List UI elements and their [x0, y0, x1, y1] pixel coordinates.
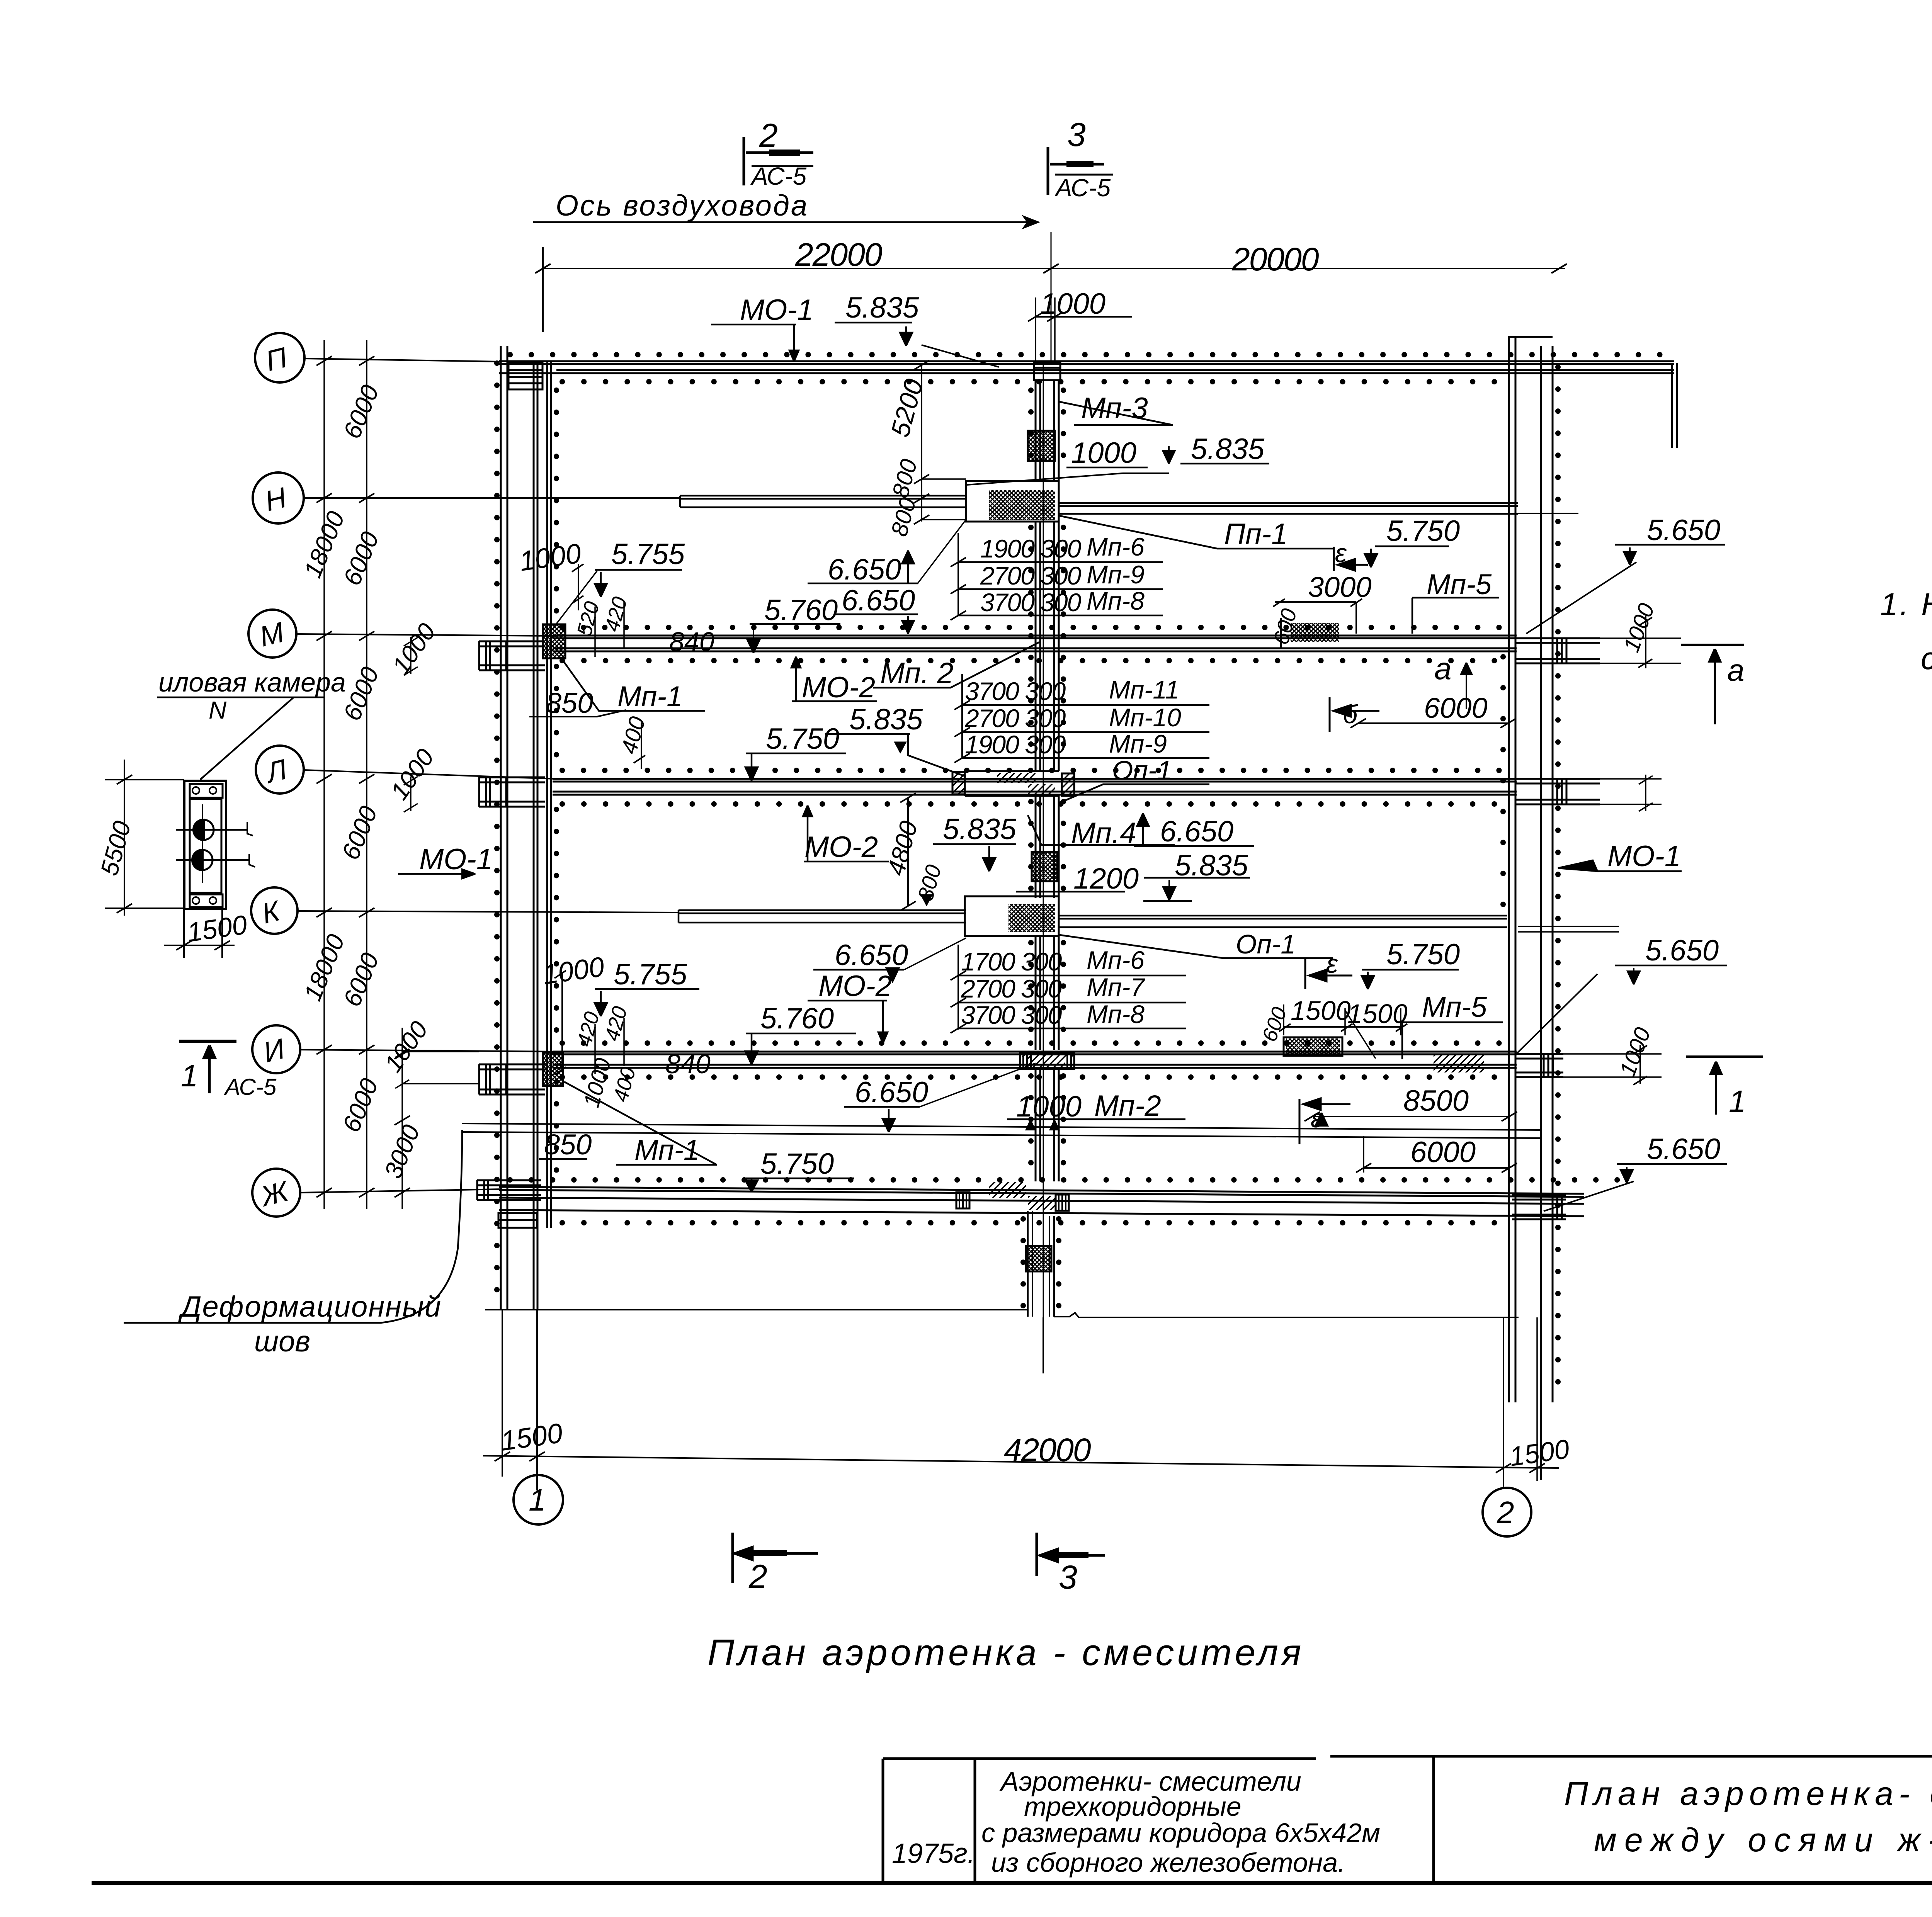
svg-text:с размерами коридора 6х5х42м: с размерами коридора 6х5х42м — [981, 1818, 1380, 1848]
svg-text:5.750: 5.750 — [1386, 938, 1460, 971]
svg-text:МО-2: МО-2 — [802, 671, 875, 704]
svg-text:Оп-1: Оп-1 — [1236, 929, 1296, 959]
svg-text:МО-2: МО-2 — [804, 831, 878, 863]
svg-text:1900 300: 1900 300 — [965, 730, 1066, 759]
svg-text:5.835: 5.835 — [1191, 433, 1265, 466]
svg-text:6.650: 6.650 — [855, 1076, 928, 1109]
svg-text:1500: 1500 — [1347, 999, 1408, 1029]
svg-text:850: 850 — [546, 687, 593, 719]
svg-text:6.650: 6.650 — [1160, 815, 1233, 848]
svg-text:ε: ε — [1335, 539, 1347, 568]
svg-text:1: 1 — [181, 1059, 198, 1093]
svg-text:Мп-11: Мп-11 — [1109, 675, 1179, 704]
svg-text:5.760: 5.760 — [760, 1002, 834, 1035]
svg-text:Мп-5: Мп-5 — [1422, 991, 1487, 1023]
svg-text:1975г.: 1975г. — [892, 1838, 975, 1869]
svg-text:3: 3 — [1059, 1559, 1077, 1596]
svg-text:1. Настоящий чертеж рассматри: 1. Настоящий чертеж рассматривать — [1880, 587, 1932, 622]
svg-text:1: 1 — [1729, 1084, 1746, 1118]
svg-text:850: 850 — [544, 1128, 592, 1161]
svg-text:Мп-6: Мп-6 — [1087, 532, 1145, 561]
svg-text:5.650: 5.650 — [1647, 1133, 1720, 1166]
svg-text:6.650: 6.650 — [828, 553, 901, 586]
svg-text:МО-1: МО-1 — [740, 294, 813, 326]
svg-text:1000: 1000 — [1071, 437, 1136, 469]
svg-text:840: 840 — [669, 627, 714, 657]
svg-text:Мп-9: Мп-9 — [1109, 729, 1167, 758]
svg-text:1500: 1500 — [1291, 996, 1351, 1026]
svg-text:Ось воздуховода: Ось воздуховода — [556, 189, 809, 222]
svg-text:а: а — [1434, 651, 1452, 686]
svg-text:5.835: 5.835 — [943, 813, 1017, 846]
svg-text:6000: 6000 — [1424, 692, 1488, 724]
svg-text:б: б — [1343, 700, 1359, 729]
svg-text:2: 2 — [1497, 1495, 1514, 1530]
svg-text:1000: 1000 — [1040, 287, 1105, 320]
svg-text:План аэротенка- смесителя: План аэротенка- смесителя — [1564, 1775, 1932, 1812]
svg-text:Деформационный: Деформационный — [178, 1290, 442, 1323]
svg-text:Мп-5: Мп-5 — [1427, 568, 1492, 600]
svg-text:5.755: 5.755 — [611, 538, 685, 571]
svg-text:Мп-8: Мп-8 — [1087, 586, 1145, 615]
svg-text:МО-1: МО-1 — [1607, 840, 1681, 873]
svg-text:Мп-2: Мп-2 — [1094, 1089, 1161, 1122]
svg-text:5.835: 5.835 — [845, 291, 919, 324]
svg-text:Мп-10: Мп-10 — [1109, 703, 1181, 732]
svg-text:6000: 6000 — [1410, 1136, 1476, 1169]
svg-text:5.650: 5.650 — [1647, 514, 1720, 547]
svg-text:5.755: 5.755 — [614, 958, 687, 991]
svg-text:из сборного железобетона.: из сборного железобетона. — [991, 1847, 1345, 1878]
svg-text:ε: ε — [1326, 949, 1338, 979]
svg-text:6.650: 6.650 — [842, 584, 915, 617]
svg-text:5.835: 5.835 — [1175, 849, 1248, 882]
svg-text:5.760: 5.760 — [764, 594, 838, 627]
svg-text:5.750: 5.750 — [760, 1147, 834, 1180]
svg-text:2: 2 — [759, 117, 778, 154]
svg-text:между осями ж-П: между осями ж-П — [1594, 1822, 1932, 1859]
svg-text:совместно с листами АС-3, АС-5: совместно с листами АС-3, АС-5 — [1921, 641, 1932, 676]
svg-text:МО-1: МО-1 — [419, 843, 493, 876]
svg-text:Мп-9: Мп-9 — [1087, 560, 1145, 589]
svg-text:Пп-1: Пп-1 — [1224, 518, 1287, 551]
svg-text:2700 300: 2700 300 — [961, 974, 1062, 1003]
svg-text:Мп-3: Мп-3 — [1081, 392, 1148, 425]
svg-text:2700 300: 2700 300 — [964, 704, 1066, 732]
svg-text:2700 300: 2700 300 — [980, 561, 1082, 590]
svg-text:3: 3 — [1067, 116, 1086, 153]
svg-text:МО-2: МО-2 — [818, 970, 892, 1003]
svg-text:22000: 22000 — [795, 236, 883, 273]
svg-text:Мп. 2: Мп. 2 — [880, 657, 954, 690]
svg-text:3700 300: 3700 300 — [965, 677, 1066, 705]
svg-text:1700 300: 1700 300 — [961, 947, 1062, 976]
svg-text:АС-5: АС-5 — [224, 1074, 277, 1100]
svg-text:Мп.4: Мп.4 — [1071, 817, 1136, 850]
svg-text:Мп-1: Мп-1 — [634, 1134, 699, 1166]
svg-text:20000: 20000 — [1231, 241, 1319, 277]
svg-text:ε: ε — [1311, 1104, 1323, 1133]
svg-text:а: а — [1727, 653, 1745, 687]
svg-text:1200: 1200 — [1073, 862, 1139, 895]
svg-text:АС-5: АС-5 — [1054, 174, 1111, 202]
svg-text:План аэротенка - смесителя: План аэротенка - смесителя — [707, 1632, 1304, 1673]
svg-text:1000: 1000 — [1016, 1090, 1082, 1123]
svg-text:трехкоридорные: трехкоридорные — [1024, 1791, 1242, 1822]
svg-text:5.650: 5.650 — [1645, 934, 1719, 967]
svg-text:Мп-1: Мп-1 — [617, 680, 682, 712]
svg-text:Мп-8: Мп-8 — [1087, 1000, 1145, 1028]
svg-text:840: 840 — [665, 1049, 711, 1079]
svg-text:иловая камера: иловая камера — [158, 667, 346, 697]
svg-text:3700 300: 3700 300 — [961, 1001, 1062, 1029]
svg-text:3700 300: 3700 300 — [980, 588, 1082, 617]
svg-text:Мп-6: Мп-6 — [1087, 946, 1145, 974]
svg-text:5.835: 5.835 — [849, 703, 923, 736]
svg-text:Мп-7: Мп-7 — [1087, 973, 1145, 1001]
svg-text:N: N — [209, 696, 227, 724]
svg-text:1900 300: 1900 300 — [980, 534, 1082, 563]
svg-text:6.650: 6.650 — [835, 939, 908, 972]
svg-text:шов: шов — [254, 1325, 310, 1358]
svg-text:8500: 8500 — [1403, 1084, 1469, 1117]
svg-text:Оп-1: Оп-1 — [1112, 755, 1172, 785]
svg-text:5.750: 5.750 — [1386, 515, 1460, 547]
svg-text:АС-5: АС-5 — [750, 162, 807, 190]
svg-text:42000: 42000 — [1004, 1432, 1091, 1468]
svg-text:3000: 3000 — [1308, 571, 1372, 603]
svg-text:2: 2 — [748, 1558, 767, 1595]
svg-text:5.750: 5.750 — [766, 722, 839, 755]
